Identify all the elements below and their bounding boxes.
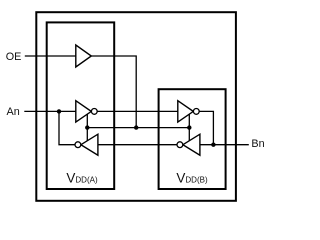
buffer G0 (OE) bbox=[76, 45, 92, 67]
inverter G1 (A to B driver) bbox=[76, 101, 92, 122]
junction dot An node bbox=[57, 109, 61, 113]
wire OE input bbox=[25, 55, 76, 57]
outer box (device boundary) bbox=[36, 12, 236, 201]
inverter G2 (B to A driver) bbox=[81, 134, 98, 155]
inverter G3 (B side input stage) bbox=[178, 101, 194, 122]
bubble G3 bbox=[193, 109, 199, 115]
wire An to G2 output bbox=[59, 111, 75, 144]
bubble G4 bbox=[177, 142, 183, 148]
wire Bn output bbox=[200, 144, 249, 146]
junction dot enable A bbox=[85, 125, 89, 129]
wire G1 output to G3 input bbox=[97, 110, 178, 112]
svg-text:An: An bbox=[7, 106, 20, 118]
junction dot enable mid bbox=[134, 125, 138, 129]
VDD(B) box bbox=[159, 89, 226, 189]
svg-text:OE: OE bbox=[6, 51, 22, 63]
inverter G4 (B side return stage) bbox=[183, 134, 200, 155]
bubble G2 bbox=[75, 142, 81, 148]
VDD(A) box bbox=[47, 22, 115, 189]
wire G3 output to Bn node bbox=[199, 111, 213, 144]
svg-text:Bn: Bn bbox=[251, 138, 264, 150]
wire G4 output to G2 input bbox=[98, 144, 177, 146]
junction dot enable B bbox=[187, 125, 191, 129]
junction dot Bn node bbox=[211, 143, 215, 147]
wire enable stub A side bbox=[86, 113, 88, 141]
bubble G1 bbox=[91, 109, 97, 115]
wire G0 output to enable bus bbox=[91, 56, 136, 128]
wire OE enable bus bbox=[87, 127, 189, 129]
wire enable stub B side bbox=[188, 113, 190, 141]
wire An input bbox=[24, 110, 76, 112]
